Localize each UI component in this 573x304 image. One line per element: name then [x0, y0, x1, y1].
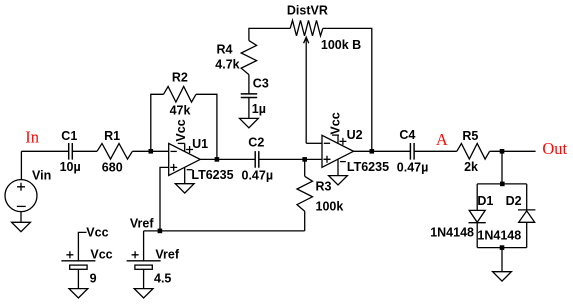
svg-text:LT6235: LT6235	[347, 160, 389, 174]
node junction Vref	[158, 229, 163, 234]
wire R2 left leg	[151, 94, 164, 151]
ground under C3	[240, 118, 259, 127]
ground under U1	[175, 184, 194, 193]
resistor R3	[297, 176, 313, 211]
capacitor C1	[69, 143, 73, 160]
op-amp U2	[322, 135, 354, 175]
svg-text:C1: C1	[61, 129, 77, 143]
svg-text:C2: C2	[248, 136, 264, 150]
svg-text:Out: Out	[542, 139, 567, 158]
wire C3 to ground	[248, 98, 250, 119]
wire D1 bottom lead	[476, 223, 478, 248]
svg-text:0.47µ: 0.47µ	[242, 169, 274, 183]
ground under U2	[329, 176, 348, 185]
node junction at U2 output	[370, 149, 375, 154]
svg-text:R4: R4	[217, 43, 233, 57]
wire R3 bottom stub	[304, 211, 306, 231]
svg-text:In: In	[25, 128, 39, 147]
resistor R5	[457, 144, 490, 160]
svg-text:1N4148: 1N4148	[430, 226, 474, 240]
svg-text:4.7k: 4.7k	[215, 58, 239, 72]
wire R2 right leg	[196, 94, 217, 159]
svg-text:100k: 100k	[316, 200, 344, 214]
voltage source Vref	[127, 231, 161, 289]
potentiometer DistVR	[290, 20, 323, 36]
svg-text:U1: U1	[192, 137, 208, 151]
capacitor C2	[255, 151, 259, 168]
node junction at U1 output	[215, 157, 220, 162]
node junction at R2 tap	[149, 149, 154, 154]
wire C4 to R5	[414, 150, 457, 152]
node junction at R3 tap	[302, 157, 307, 162]
svg-text:R3: R3	[316, 179, 332, 193]
svg-text:47k: 47k	[170, 104, 191, 118]
voltage source Vcc	[61, 251, 95, 288]
wire bridge bottom	[477, 247, 527, 249]
wire Vin top stub	[20, 151, 22, 179]
wire pot left to R4	[249, 28, 290, 40]
wire bridge to ground	[501, 248, 503, 272]
resistor R1	[97, 144, 132, 160]
svg-text:9: 9	[90, 271, 97, 285]
svg-text:Vin: Vin	[32, 169, 51, 183]
svg-text:Vcc: Vcc	[90, 247, 112, 261]
resistor R4	[241, 41, 256, 75]
ground under Vin	[12, 222, 31, 231]
diode D2	[518, 210, 535, 222]
voltage source Vin	[5, 180, 37, 212]
wire C2 to U2 non-inverting input	[259, 158, 322, 160]
svg-text:Vcc: Vcc	[329, 112, 343, 134]
wire R1 to U1 inverting input	[132, 150, 168, 152]
Vcc flag U2	[329, 112, 343, 135]
wire Vref rail	[144, 230, 305, 232]
svg-text:R5: R5	[462, 129, 478, 143]
wire bridge top	[477, 183, 527, 185]
wire pot right leg	[323, 28, 372, 151]
resistor R2	[164, 87, 197, 103]
wire C1 to R1	[72, 150, 97, 152]
wire U1 output to C2	[200, 158, 255, 160]
svg-text:0.47µ: 0.47µ	[397, 160, 429, 174]
Vcc flag U1	[174, 119, 188, 143]
svg-text:DistVR: DistVR	[287, 3, 328, 17]
wire R5 to Out	[490, 150, 536, 152]
svg-text:A: A	[436, 130, 448, 149]
wiper arrow	[304, 37, 309, 43]
op-amp U1	[169, 143, 201, 183]
svg-text:U2: U2	[347, 128, 363, 142]
node junction bridge bottom	[500, 245, 505, 250]
svg-text:Vref: Vref	[155, 247, 179, 261]
svg-text:R2: R2	[172, 70, 188, 84]
wire D1 top lead	[476, 184, 478, 211]
svg-text:R1: R1	[104, 129, 120, 143]
svg-text:4.5: 4.5	[154, 271, 171, 285]
wire U2 inverting input	[306, 142, 322, 144]
svg-text:D1: D1	[477, 194, 493, 208]
capacitor C4	[410, 143, 414, 160]
wire U1 non-inverting input	[160, 167, 169, 231]
ground under Vcc	[69, 289, 88, 298]
wire U2 output to C4	[354, 150, 411, 152]
svg-text:Vcc: Vcc	[174, 119, 188, 141]
wire D2 bottom lead	[526, 222, 528, 247]
wire wiper to inverting input	[305, 39, 307, 144]
wire D2 top lead	[526, 184, 528, 210]
wire down to diode bridge	[501, 151, 503, 184]
svg-text:C3: C3	[253, 77, 269, 91]
node junction bridge top	[500, 182, 505, 187]
Vcc flag at source	[78, 226, 108, 261]
svg-text:1N4148: 1N4148	[477, 229, 521, 243]
svg-text:Vcc: Vcc	[86, 226, 108, 240]
wire R4 to C3	[248, 75, 250, 94]
ground under diodes	[493, 272, 512, 281]
diode D1	[469, 210, 486, 222]
svg-text:2k: 2k	[464, 160, 478, 174]
node junction at Out	[500, 149, 505, 154]
svg-text:Vref: Vref	[130, 216, 154, 230]
svg-text:1µ: 1µ	[252, 102, 266, 116]
svg-text:C4: C4	[399, 128, 415, 142]
ground under Vref	[134, 289, 153, 298]
wire Vin bottom stub	[20, 212, 22, 223]
capacitor C3	[241, 94, 258, 98]
svg-text:680: 680	[102, 161, 123, 175]
svg-text:D2: D2	[506, 194, 522, 208]
wire R3 top stub	[304, 159, 306, 176]
wire In to C1	[21, 150, 68, 152]
svg-text:10µ: 10µ	[60, 160, 81, 174]
svg-text:100k B: 100k B	[321, 38, 361, 52]
svg-text:LT6235: LT6235	[191, 168, 233, 182]
